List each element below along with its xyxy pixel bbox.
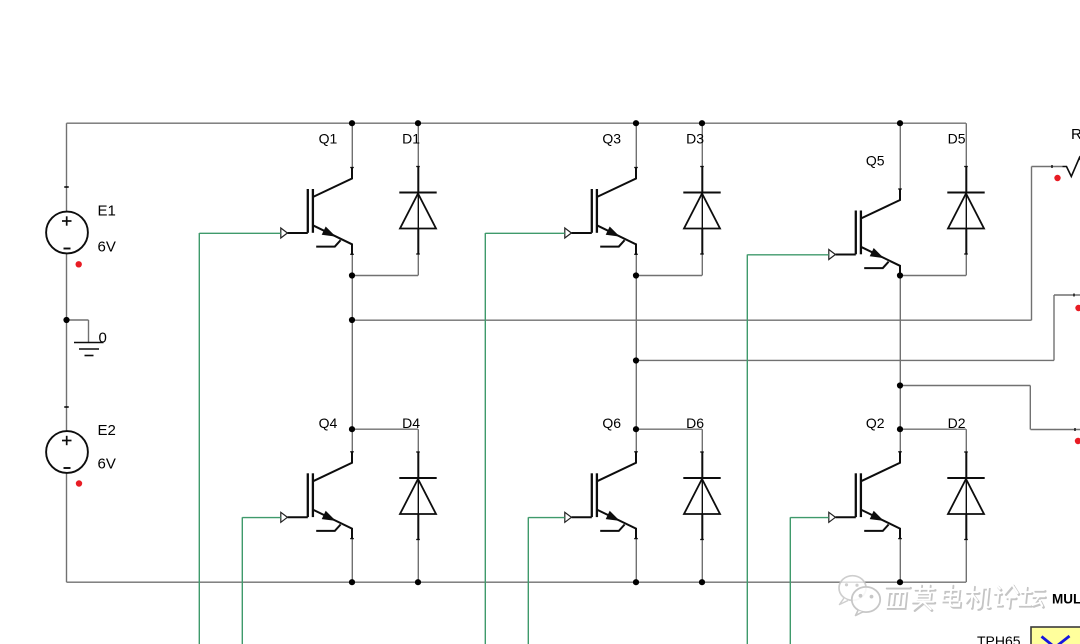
svg-text:Q6: Q6 [602,415,621,431]
svg-text:Q3: Q3 [602,131,621,147]
svg-text:6V: 6V [98,239,116,256]
svg-text:Q1: Q1 [319,131,338,147]
svg-text:0: 0 [99,330,107,347]
svg-text:E1: E1 [98,203,116,220]
svg-text:D5: D5 [948,131,966,147]
svg-text:D4: D4 [402,415,420,431]
svg-text:D1: D1 [402,131,420,147]
svg-text:TPH65: TPH65 [977,633,1021,644]
svg-text:Q5: Q5 [866,153,885,169]
svg-text:MUL: MUL [1052,592,1080,607]
svg-text:E2: E2 [98,422,116,439]
svg-text:6V: 6V [98,456,116,473]
svg-text:D6: D6 [686,415,704,431]
svg-text:D3: D3 [686,131,704,147]
svg-text:D2: D2 [948,415,966,431]
svg-text:Q4: Q4 [319,415,338,431]
svg-text:R: R [1071,126,1080,143]
svg-text:Q2: Q2 [866,415,885,431]
